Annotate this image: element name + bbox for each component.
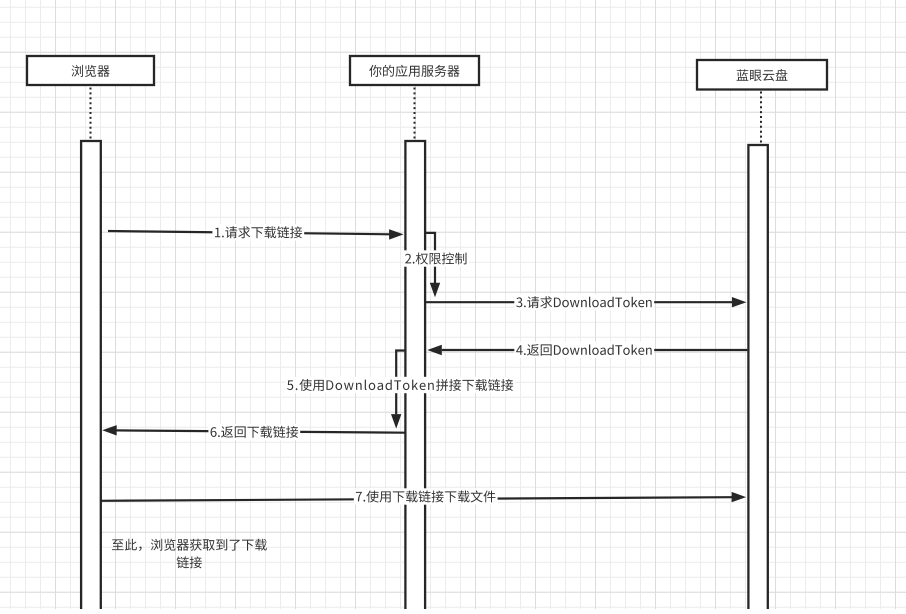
message 5 self-call wire 使用DownloadToken拼接下载链接	[396, 351, 405, 415]
message 4 arrowhead (left)	[427, 345, 442, 355]
actor box 浏览器	[27, 56, 154, 85]
lifeline 蓝眼云盘 (dotted)	[760, 92, 762, 145]
actor box 蓝眼云盘	[697, 60, 827, 90]
activation bar 蓝眼云盘	[748, 145, 767, 611]
activation bar 你的应用服务器	[405, 141, 425, 611]
message 6 arrowhead (left)	[102, 425, 117, 435]
message 3 arrowhead	[732, 297, 747, 307]
message 5 arrowhead (down)	[391, 414, 401, 429]
message 5 label 5.使用DownloadToken拼接下载链接	[285, 377, 515, 393]
message 1 wire 请求下载链接	[108, 231, 390, 234]
note text line 2 链接	[177, 556, 202, 568]
label 你的应用服务器	[369, 65, 459, 77]
message 2 label 2.权限控制	[403, 250, 469, 266]
actor box 你的应用服务器	[350, 56, 479, 85]
lifeline 浏览器 (dotted)	[90, 88, 92, 141]
message 3 wire 请求DownloadToken	[425, 301, 732, 303]
message 2 arrowhead (down)	[430, 283, 440, 298]
message 1 arrowhead	[389, 229, 404, 239]
message 7 arrowhead	[732, 492, 747, 502]
message 7 wire 使用下载链接下载文件	[101, 497, 732, 501]
message 6 label 6.返回下载链接	[208, 424, 300, 440]
label 浏览器	[72, 65, 110, 77]
message 6 wire 返回下载链接	[116, 430, 405, 432]
message 4 wire 返回DownloadToken	[442, 349, 748, 351]
message 4 label 4.返回DownloadToken	[514, 342, 654, 358]
activation bar 浏览器	[81, 141, 101, 611]
label 蓝眼云盘	[737, 69, 788, 81]
message 2 self-call wire 权限控制	[426, 233, 435, 283]
lifeline 你的应用服务器 (dotted)	[414, 88, 416, 141]
message 7 label 7.使用下载链接下载文件	[354, 488, 498, 504]
note text line 1 至此，浏览器获取到了下载	[112, 539, 267, 551]
message 1 label 1.请求下载链接	[212, 224, 304, 240]
message 3 label 3.请求DownloadToken	[514, 294, 654, 310]
